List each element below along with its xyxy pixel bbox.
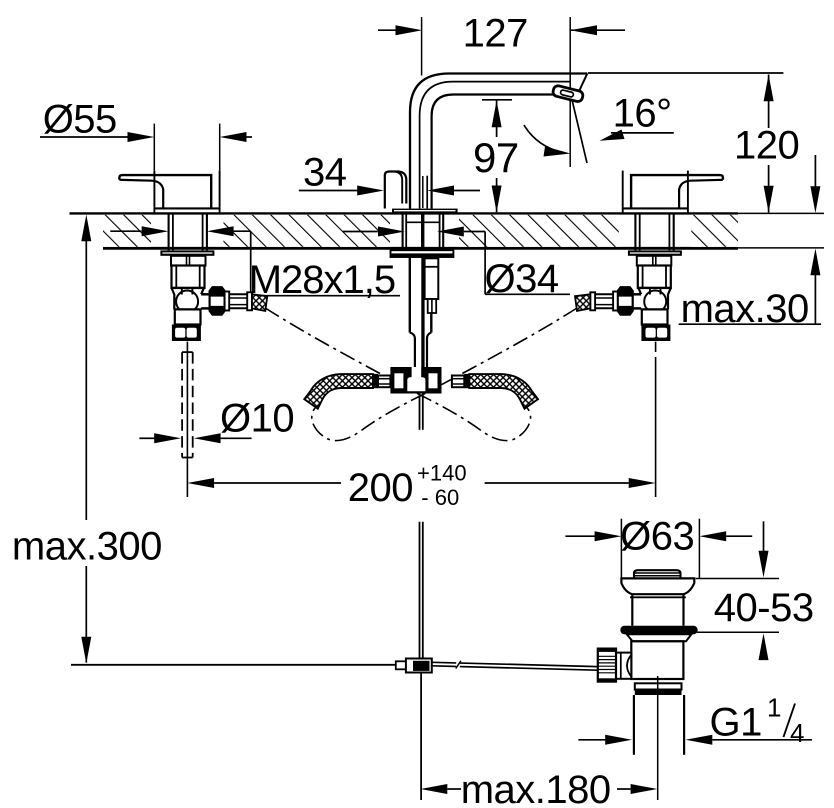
right supply hose braided — [469, 374, 538, 409]
pull rod lower segment — [420, 522, 423, 659]
dimension 127 — [378, 12, 625, 209]
horizontal lever rod — [71, 661, 598, 672]
svg-text:127: 127 — [463, 12, 528, 56]
dimension diameter 10 — [139, 397, 294, 444]
left handle escutcheon side lines — [153, 171, 155, 214]
dimension 34 — [299, 151, 480, 196]
svg-text:max.180: max.180 — [461, 768, 611, 808]
aerator — [552, 85, 584, 103]
dimension 200 +140 -60 — [187, 342, 655, 510]
drain tail coupling rings — [635, 683, 682, 689]
drain body upper — [631, 594, 633, 626]
dimension max.180 — [421, 768, 658, 808]
svg-text:- 60: - 60 — [421, 485, 459, 510]
svg-text:max.300: max.300 — [12, 525, 162, 569]
svg-text:G1: G1 — [710, 701, 762, 745]
drain knurled knob — [598, 649, 616, 682]
dimension M28x1,5 with leader — [110, 226, 400, 302]
spout outer profile — [410, 74, 587, 209]
spout middle profile — [420, 82, 571, 209]
svg-text:16°: 16° — [613, 92, 672, 136]
drain body lower — [631, 641, 683, 679]
svg-text:M28x1,5: M28x1,5 — [249, 258, 395, 302]
countertop bottom line — [103, 246, 824, 249]
spout inner profile — [432, 95, 554, 209]
pull rod below coupling — [420, 673, 422, 801]
dimension max.30 — [679, 155, 821, 331]
svg-text:Ø63: Ø63 — [620, 515, 694, 559]
left outlet pipe dashed — [182, 352, 193, 457]
centre shank tube below counter — [410, 256, 432, 368]
svg-text:Ø55: Ø55 — [43, 98, 117, 142]
drain plug cap — [634, 570, 681, 577]
dimension G1 1/4 — [578, 693, 812, 749]
angle 16 degrees annotation — [524, 92, 674, 164]
drain side port — [616, 653, 631, 679]
left valve shank — [171, 256, 206, 266]
svg-text:34: 34 — [303, 151, 347, 195]
left handle lever — [119, 175, 211, 208]
svg-text:Ø34: Ø34 — [485, 257, 559, 301]
left handle base line — [154, 207, 219, 209]
svg-text:200: 200 — [348, 466, 413, 510]
drain rubber gasket — [620, 626, 697, 635]
left supply hose braided — [304, 374, 373, 409]
drain tailpipe — [633, 695, 635, 755]
drain assembly — [598, 570, 698, 800]
svg-text:4: 4 — [790, 718, 804, 748]
svg-text:1: 1 — [767, 693, 781, 723]
svg-text:+140: +140 — [417, 460, 467, 485]
svg-text:40-53: 40-53 — [714, 586, 814, 630]
left valve body — [172, 266, 205, 289]
countertop top line — [70, 212, 825, 214]
centre escutcheon base — [392, 209, 458, 214]
tee fitting — [373, 367, 469, 394]
spout nose face — [578, 74, 587, 94]
left valve outlet ferrule — [247, 292, 252, 310]
dimension 97 — [473, 100, 519, 213]
phantom hose swing curve from right valve to left hose — [312, 308, 577, 441]
rod coupling joint — [396, 659, 432, 673]
left valve angle section — [172, 288, 204, 313]
left valve outlet tube — [229, 293, 247, 295]
centre fixing stud block — [425, 258, 439, 313]
right valve assembly (mirrored) — [575, 171, 723, 341]
countertop hatching — [103, 215, 738, 247]
dimension max.300 — [12, 215, 162, 664]
svg-text:Ø10: Ø10 — [220, 397, 294, 441]
left valve braid stub — [252, 294, 267, 311]
centre under-counter nut — [391, 250, 454, 257]
dimension 120 — [588, 73, 799, 213]
drain collar below gasket — [627, 634, 692, 641]
left valve bottom nut — [172, 325, 201, 342]
left valve outlet hex nut — [201, 287, 267, 314]
drain flange rim — [621, 578, 694, 594]
centre lever handle — [385, 172, 427, 209]
left valve centre line — [186, 342, 188, 497]
left valve assembly — [119, 171, 267, 341]
dimension diameter 55 — [40, 98, 252, 171]
pull rod upper segment — [420, 394, 423, 430]
left valve outlet washer — [225, 292, 230, 311]
dimension 40-53 — [696, 521, 814, 660]
left valve neck — [175, 309, 201, 324]
svg-text:97: 97 — [473, 134, 519, 181]
dimension diameter 34 with leader — [343, 227, 570, 302]
svg-text:120: 120 — [734, 124, 799, 168]
phantom hose swing curve from left valve to right hose — [265, 308, 530, 441]
dimension diameter 63 — [565, 515, 752, 579]
centre shank through counter — [403, 213, 444, 256]
svg-text:max.30: max.30 — [681, 287, 809, 331]
left valve shank through counter — [168, 213, 170, 250]
left valve top nut — [160, 250, 214, 255]
drain centre line — [657, 676, 659, 800]
